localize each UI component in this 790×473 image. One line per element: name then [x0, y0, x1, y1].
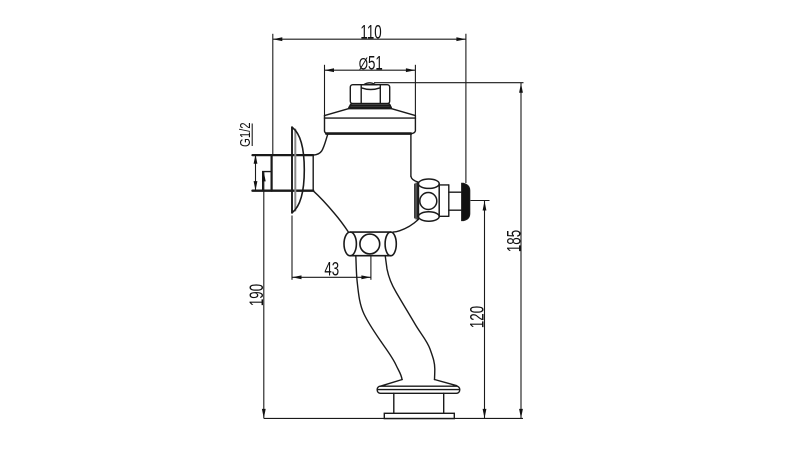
dim 120 line [484, 201, 486, 419]
body right wall [410, 134, 412, 177]
upper body band [325, 116, 416, 134]
inlet pipe [253, 155, 314, 191]
hex cap nut [350, 83, 389, 104]
body left wall fillet to inlet [313, 134, 328, 155]
side valve cylinder [439, 185, 449, 216]
dim 51 ext right [414, 65, 416, 116]
dim 120 ext top [471, 200, 490, 202]
dim 190 line [263, 172, 265, 419]
dim 190 arrows [262, 172, 266, 182]
dim G1/2 arrows [254, 154, 258, 164]
dim 51 arrows [325, 68, 335, 72]
body funnel left [313, 191, 348, 232]
inlet pipe step [263, 172, 272, 191]
side valve barrel nut [418, 179, 439, 221]
svg-text:120: 120 [467, 306, 488, 328]
dim 110 line [273, 38, 466, 40]
flange neck [394, 393, 444, 413]
svg-text:110: 110 [360, 22, 381, 43]
push button (black) [462, 183, 470, 220]
fillet to side valve [411, 176, 418, 182]
svg-text:G1/2: G1/2 [237, 122, 254, 147]
S-curve down pipe right wall [385, 256, 435, 380]
dim 51 ext left [324, 65, 326, 116]
side valve neck [449, 192, 462, 210]
dim G1/2 line [255, 155, 257, 191]
washer under nut [348, 104, 391, 109]
bell top of valve body [325, 109, 416, 116]
G1/2 underline [251, 124, 253, 147]
dim 185 ext top [374, 82, 524, 84]
bottom flange rim [377, 386, 460, 393]
wall flange [292, 127, 304, 213]
S-curve down pipe left wall [356, 256, 402, 380]
flange base plate [384, 413, 454, 418]
svg-text:190: 190 [247, 284, 268, 306]
svg-text:Ø51: Ø51 [359, 53, 383, 74]
body funnel right [393, 220, 418, 232]
dim 110 arrows [273, 37, 283, 41]
bottom flange cone [380, 380, 457, 387]
dim 43 arrows [292, 275, 302, 279]
dim 43 line [292, 276, 371, 278]
svg-text:43: 43 [324, 259, 339, 280]
dim 185 line [520, 83, 522, 419]
dim baseline bottom [264, 417, 523, 419]
dim 185 arrows [519, 83, 523, 93]
dim 110 ext right [465, 34, 467, 183]
dim 43 ext right [370, 256, 372, 280]
dim 51 line [325, 69, 416, 71]
svg-text:185: 185 [504, 230, 525, 252]
dim 110 ext left [272, 34, 274, 154]
dim 43 ext left [291, 216, 293, 280]
bottom coupling nut [344, 232, 396, 256]
body face at inlet [312, 155, 314, 190]
side valve hatch face [415, 183, 419, 220]
dim 120 arrows [483, 201, 487, 211]
